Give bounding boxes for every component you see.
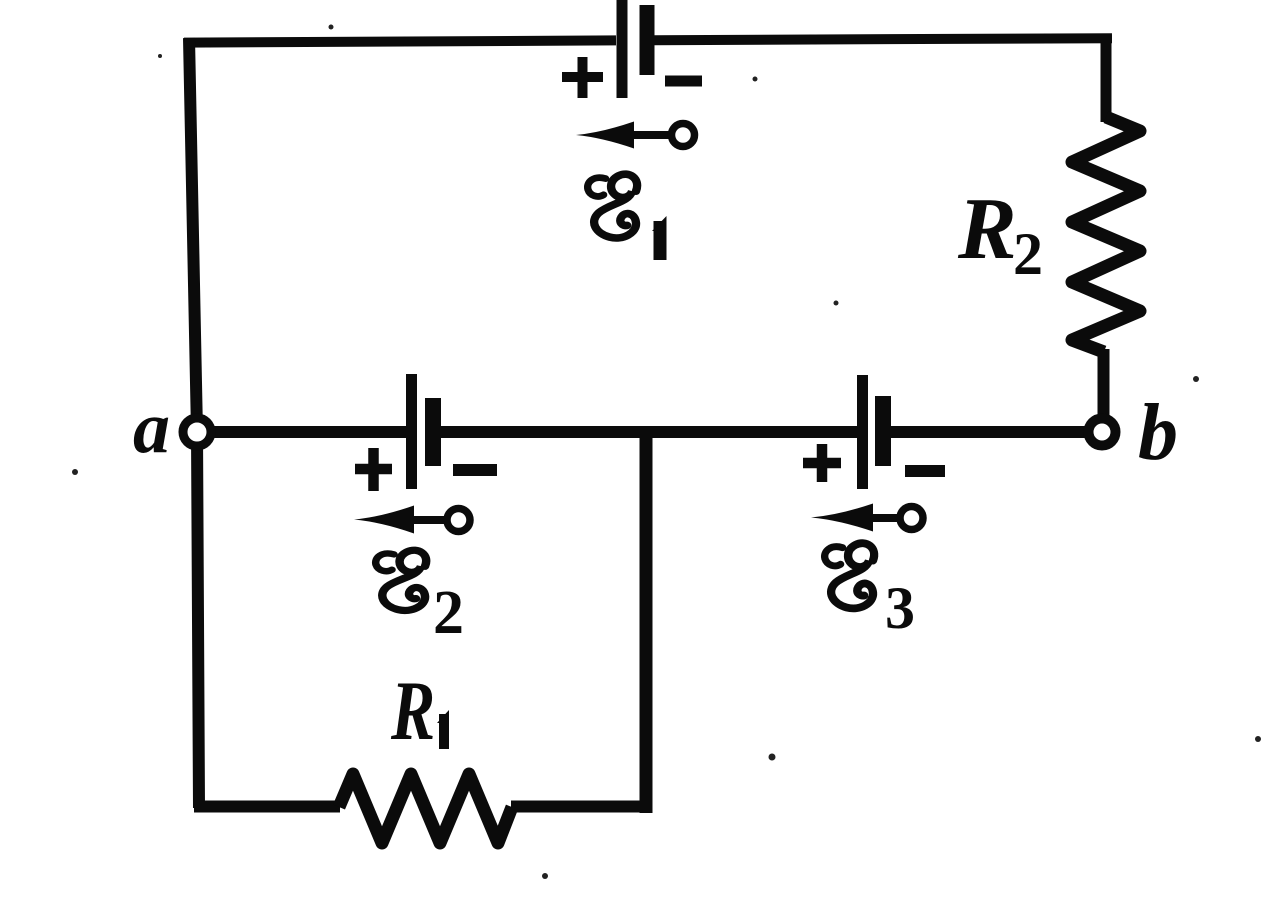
label R1 subscript 1 (437, 710, 449, 749)
wire middle E3 to node b (891, 426, 1090, 438)
svg-text:b: b (1138, 389, 1178, 477)
battery E1 plus sign (562, 57, 603, 98)
battery E2 positive plate (406, 374, 417, 489)
battery E1 positive plate (617, 0, 628, 98)
wire lower-right vertical (640, 428, 653, 813)
svg-text:2: 2 (1013, 221, 1043, 287)
wire left vertical (189, 38, 199, 808)
resistor R1 zigzag (339, 774, 512, 843)
svg-text:3: 3 (885, 575, 915, 641)
svg-text:R: R (390, 664, 435, 758)
battery E3 positive plate (857, 375, 868, 489)
E2 arrow tail circle (447, 509, 470, 532)
label script E1 (588, 174, 637, 238)
node a (183, 418, 211, 446)
E1 arrow head (576, 122, 634, 149)
wire middle E2 to E3 (441, 426, 857, 438)
battery E3 minus sign (905, 465, 945, 477)
E3 arrow head (811, 504, 873, 532)
E1 arrow shaft (628, 131, 670, 139)
battery E1 minus sign (665, 76, 702, 87)
E3 arrow tail circle (900, 507, 923, 530)
wire bottom-left segment (194, 801, 340, 813)
wire R2 to node b (1098, 349, 1110, 420)
battery E3 plus sign (803, 444, 841, 482)
wire right vertical upper (1101, 34, 1112, 122)
battery E3 negative plate (875, 396, 891, 466)
label script E3 (825, 543, 874, 608)
label script E2 (376, 550, 426, 610)
svg-text:a: a (133, 387, 170, 469)
label E1 subscript 1 (652, 216, 667, 260)
wire middle a to E2 (200, 426, 406, 438)
E2 arrow head (354, 506, 414, 534)
wire bottom-right segment (511, 801, 652, 813)
E1 arrow tail circle (672, 124, 695, 147)
resistor R2 zigzag (1072, 117, 1140, 352)
battery E1 negative plate (640, 5, 655, 75)
svg-text:R: R (957, 181, 1017, 278)
svg-text:2: 2 (433, 579, 464, 647)
wire top-left segment (184, 40, 616, 42)
battery E2 plus sign (355, 448, 392, 491)
battery E2 minus sign (453, 464, 497, 476)
battery E2 negative plate (425, 398, 441, 466)
node b (1089, 419, 1116, 446)
E3 arrow shaft (871, 514, 900, 522)
wire top-right segment (653, 38, 1112, 40)
E2 arrow shaft (412, 516, 447, 524)
